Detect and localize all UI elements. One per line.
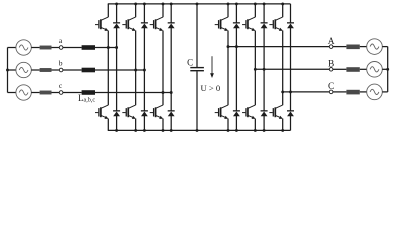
wire source B to bus	[382, 68, 387, 70]
wire leg to node C	[283, 91, 330, 93]
wire source c to resistor	[31, 92, 39, 94]
resistor phase B	[346, 67, 359, 72]
IGBT right leg C upper	[269, 17, 282, 31]
wire left leg b diode column	[143, 4, 145, 130]
diode right leg B upper	[261, 23, 268, 28]
diode left leg b upper	[141, 23, 148, 28]
IGBT right leg A upper	[215, 17, 228, 31]
diode left leg a upper	[113, 23, 120, 28]
wire source C to bus	[382, 91, 387, 93]
inductor Lc	[82, 90, 95, 95]
wire resistor to source B	[360, 68, 367, 70]
wire left leg c diode column	[170, 4, 172, 130]
wire DC- bottom rail	[108, 129, 291, 131]
IGBT right leg B lower	[242, 105, 255, 119]
node b	[59, 68, 63, 72]
resistor phase c	[40, 91, 52, 95]
wire resistor to source A	[360, 46, 367, 48]
AC source phase C	[367, 84, 383, 100]
junction dots left leg a	[107, 46, 118, 49]
wire left leg c IGBT column	[162, 4, 164, 130]
junction dots right leg B	[254, 68, 266, 71]
wire resistor to node c	[52, 92, 60, 94]
AC source phase A	[367, 39, 383, 55]
wire right leg B IGBT column	[254, 4, 256, 130]
wire resistor to node a	[52, 47, 60, 49]
svg-text:C: C	[328, 82, 334, 92]
diode right leg C upper	[287, 23, 294, 28]
wire source a to resistor	[31, 47, 39, 49]
node A	[329, 45, 333, 49]
junction dots on DC rails	[115, 2, 284, 131]
junction dot left bus phase b	[6, 69, 9, 72]
wire node B to resistor	[333, 68, 346, 70]
wire right leg C diode column	[290, 4, 292, 130]
wire right leg B diode column	[263, 4, 265, 130]
IGBT left leg c upper	[150, 17, 163, 31]
wire left leg a IGBT column	[107, 4, 109, 130]
wire resistor to node b	[52, 69, 60, 71]
wire phase a to leg	[95, 47, 117, 49]
IGBT right leg A lower	[215, 105, 228, 119]
diode left leg b lower	[141, 111, 148, 116]
wire bus to source a	[8, 47, 17, 49]
AC source phase a	[16, 40, 31, 55]
wire right leg A IGBT column	[227, 4, 229, 130]
junction dot right bus phase B	[386, 68, 389, 71]
wire right leg C IGBT column	[282, 4, 284, 130]
node a	[59, 46, 63, 50]
diode right leg A upper	[233, 23, 240, 28]
capacitor C	[190, 68, 204, 71]
wire left neutral bus	[7, 48, 9, 93]
IGBT left leg b lower	[122, 105, 135, 119]
svg-text:U > 0: U > 0	[200, 83, 220, 93]
wire node c to inductor	[63, 92, 82, 94]
svg-text:C: C	[187, 58, 193, 68]
svg-text:A: A	[328, 37, 335, 47]
arrow DC voltage U	[210, 56, 214, 78]
resistor phase b	[40, 68, 52, 72]
diode right leg B lower	[261, 111, 268, 116]
AC source phase c	[16, 85, 31, 100]
wire node a to inductor	[63, 47, 82, 49]
AC source phase B	[367, 62, 383, 78]
wire capacitor top	[196, 4, 198, 67]
wire source b to resistor	[31, 69, 39, 71]
diode right leg A lower	[233, 111, 240, 116]
diode right leg C lower	[287, 111, 294, 116]
wire right leg A diode column	[235, 4, 237, 130]
IGBT right leg B upper	[242, 17, 255, 31]
node c	[59, 91, 63, 95]
wire bus to source c	[8, 92, 17, 94]
inductor Lb	[82, 68, 95, 73]
junction dots left leg b	[134, 69, 146, 72]
IGBT left leg a upper	[95, 17, 108, 31]
IGBT left leg b upper	[122, 17, 135, 31]
wire node A to resistor	[333, 46, 346, 48]
IGBT left leg a lower	[95, 105, 108, 119]
IGBT right leg C lower	[269, 105, 282, 119]
AC source phase b	[16, 62, 31, 77]
svg-text:b: b	[59, 59, 63, 68]
wire leg to node A	[228, 46, 329, 48]
wire bus to source b	[8, 69, 17, 71]
wire phase c to leg	[95, 92, 171, 94]
diode left leg a lower	[113, 111, 120, 116]
IGBT left leg c lower	[150, 105, 163, 119]
inductor La	[82, 45, 95, 50]
wire DC+ top rail	[108, 3, 291, 5]
wire left leg b IGBT column	[135, 4, 137, 130]
diode left leg c upper	[168, 23, 175, 28]
diode left leg c lower	[168, 111, 175, 116]
wire leg to node B	[255, 68, 329, 70]
resistor phase C	[346, 90, 359, 95]
wire node C to resistor	[333, 91, 346, 93]
svg-text:B: B	[328, 60, 334, 70]
node B	[329, 68, 333, 72]
junction dots right leg C	[281, 90, 292, 93]
resistor phase A	[346, 45, 359, 50]
wire right neutral bus	[387, 47, 389, 92]
resistor phase a	[40, 46, 52, 50]
node C	[329, 90, 333, 94]
wire source A to bus	[382, 46, 387, 48]
wire node b to inductor	[63, 69, 82, 71]
junction dots right leg A	[227, 45, 238, 48]
wire capacitor bottom	[196, 71, 198, 130]
junction dots left leg c	[162, 91, 173, 94]
wire left leg a diode column	[116, 4, 118, 130]
wire resistor to source C	[360, 91, 367, 93]
wire phase b to leg	[95, 69, 144, 71]
